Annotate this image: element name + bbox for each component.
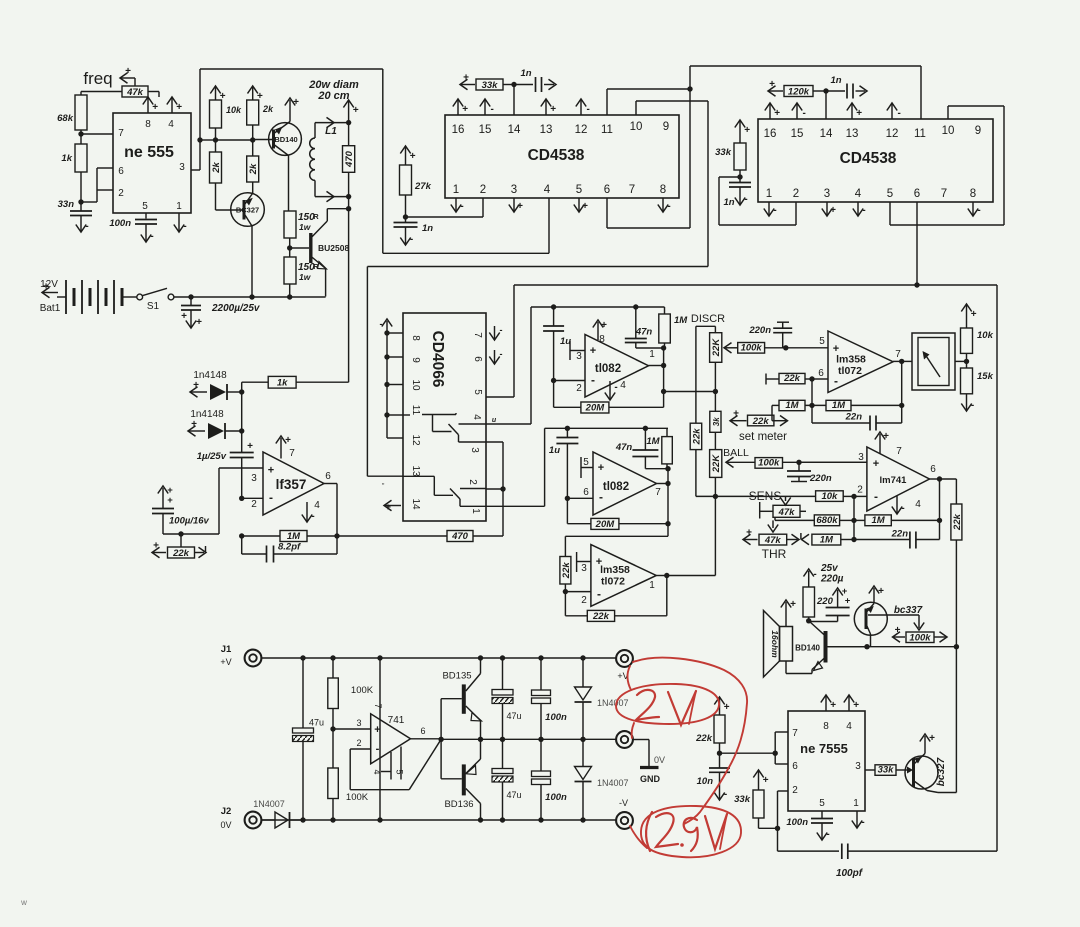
svg-text:6: 6	[914, 188, 920, 200]
svg-text:13: 13	[846, 128, 859, 140]
svg-text:10n: 10n	[697, 776, 714, 787]
node 47n-1M a	[636, 345, 667, 350]
switch U5 a	[403, 413, 486, 442]
svg-text:-: -	[971, 400, 974, 411]
svg-text:5: 5	[887, 188, 893, 200]
connector J2	[220, 806, 261, 830]
svg-text:20 cm: 20 cm	[317, 90, 349, 102]
label SENS	[749, 489, 782, 503]
svg-text:-: -	[724, 789, 727, 800]
svg-text:7: 7	[373, 703, 383, 708]
svg-text:+: +	[744, 125, 750, 136]
power arrow bc327 2	[920, 733, 935, 754]
svg-text:-: -	[826, 829, 829, 840]
svg-text:GND: GND	[640, 774, 661, 784]
svg-text:4: 4	[471, 414, 482, 420]
svg-text:10k: 10k	[977, 330, 994, 341]
svg-text:220n: 220n	[748, 325, 771, 336]
svg-text:2200µ/25v: 2200µ/25v	[211, 303, 261, 314]
resistor 22k parallel	[690, 326, 715, 496]
svg-text:16ohm: 16ohm	[770, 630, 780, 658]
svg-text:8: 8	[410, 335, 421, 341]
svg-text:100k: 100k	[758, 458, 780, 469]
svg-text:+: +	[878, 586, 884, 597]
svg-text:1w: 1w	[299, 222, 312, 232]
resistor 33k (U4)	[715, 143, 746, 170]
svg-text:8.2pf: 8.2pf	[278, 542, 301, 553]
svg-text:6: 6	[325, 471, 331, 482]
wire	[714, 432, 716, 449]
svg-text:+: +	[830, 700, 836, 711]
svg-text:47k: 47k	[778, 507, 796, 518]
svg-text:+: +	[353, 105, 359, 116]
svg-text:S1: S1	[147, 301, 160, 312]
svg-text:w: w	[20, 898, 27, 907]
resistor 680k	[775, 515, 857, 526]
power arrow lf357 pin7	[276, 435, 295, 459]
svg-text:6: 6	[930, 464, 936, 475]
svg-text:+: +	[153, 541, 159, 552]
pin3 marker lm358c	[577, 552, 591, 574]
svg-text:22n: 22n	[891, 529, 909, 540]
svg-text:1M: 1M	[820, 534, 834, 545]
power arrow 22k bias	[714, 697, 729, 715]
svg-text:13: 13	[540, 124, 553, 136]
svg-text:+: +	[176, 102, 182, 113]
power arrow BD140 emitter	[285, 97, 299, 122]
svg-text:2: 2	[118, 188, 124, 199]
resistor 150R 1w lower	[284, 257, 319, 284]
ground arrow U3 pin1	[451, 198, 464, 212]
svg-text:4: 4	[314, 500, 320, 511]
capacitor 47u b	[492, 658, 522, 739]
pin5 marker tl082b	[581, 457, 593, 478]
svg-text:1M: 1M	[674, 315, 688, 326]
red link to 0V	[627, 666, 634, 738]
svg-text:-: -	[861, 817, 864, 828]
wire U4 pin2	[719, 177, 796, 225]
ground arrow U6A pin4	[605, 380, 626, 400]
svg-text:10: 10	[942, 125, 955, 137]
svg-text:J2: J2	[221, 806, 232, 817]
diode 1N4007 J2	[253, 799, 303, 828]
power arrow coil	[343, 100, 358, 123]
capacitor 33n	[58, 199, 92, 216]
capacitor 100n (U10 pin5)	[786, 811, 833, 828]
op-amp 741 U11	[356, 703, 410, 763]
svg-text:16: 16	[452, 124, 465, 136]
svg-text:+: +	[873, 458, 879, 470]
label freq	[83, 69, 112, 88]
power arrow pin4	[167, 97, 182, 113]
wire U5 pin4	[459, 307, 532, 424]
resistor 1M a	[659, 307, 688, 348]
svg-text:5: 5	[819, 336, 825, 347]
svg-text:2: 2	[792, 785, 798, 796]
svg-text:2: 2	[480, 184, 486, 196]
resistor 10k	[210, 100, 243, 128]
svg-text:6: 6	[420, 726, 425, 736]
svg-text:-: -	[500, 325, 503, 335]
resistor 33k (U10 out)	[865, 765, 913, 776]
op-amp lf357 U2	[251, 452, 324, 515]
svg-text:+: +	[724, 702, 730, 713]
capacitor 100n b	[532, 739, 568, 820]
svg-text:4: 4	[372, 769, 382, 774]
red 2 (12V)	[636, 690, 659, 720]
node U6A out tap	[661, 389, 716, 394]
resistor 20M b	[567, 498, 670, 530]
potentiometer 100k (audio)	[893, 625, 948, 644]
svg-text:100n: 100n	[786, 817, 808, 828]
svg-text:+: +	[517, 201, 523, 212]
svg-text:+: +	[763, 775, 769, 786]
svg-text:+: +	[590, 345, 596, 357]
svg-text:100n: 100n	[545, 792, 567, 803]
capacitor 1n (27k)	[394, 223, 434, 235]
meter M1	[912, 333, 955, 390]
capacitor 100pf	[836, 844, 997, 880]
svg-text:+: +	[601, 320, 607, 331]
svg-text:47u: 47u	[309, 718, 324, 728]
svg-text:1: 1	[176, 201, 182, 212]
svg-text:100k: 100k	[909, 633, 931, 644]
wire U3 pin6	[607, 198, 690, 228]
resistor 22k in (lm358c)	[560, 557, 572, 585]
svg-text:J1: J1	[221, 644, 232, 655]
svg-text:THR: THR	[762, 547, 787, 561]
ground arrow U4 pin3	[822, 202, 836, 216]
svg-text:11: 11	[914, 128, 926, 140]
diode 1n4148 D1	[210, 384, 242, 400]
capacitor 1n (U4)	[826, 75, 867, 99]
svg-text:2: 2	[581, 595, 587, 606]
svg-text:-: -	[614, 382, 617, 393]
wire U9 pin3	[799, 461, 867, 463]
svg-text:3: 3	[858, 452, 864, 463]
node D2	[239, 392, 244, 434]
svg-text:-: -	[977, 205, 980, 216]
ground arrow (33n)	[76, 216, 89, 232]
svg-text:-: -	[599, 490, 603, 504]
label Bat1	[40, 303, 61, 314]
svg-text:5: 5	[395, 769, 405, 774]
ground arrow U3 pin5	[574, 198, 588, 212]
wire top rail	[262, 655, 616, 660]
wire U4 pin10 loop	[890, 106, 1004, 225]
svg-text:16: 16	[764, 128, 777, 140]
svg-text:22n: 22n	[845, 412, 863, 423]
ground arrow U4 pin1	[764, 202, 777, 216]
svg-text:1w: 1w	[299, 272, 312, 282]
svg-text:-: -	[491, 104, 494, 115]
svg-text:1n: 1n	[723, 197, 734, 208]
svg-text:12: 12	[886, 128, 899, 140]
svg-text:3: 3	[824, 188, 830, 200]
svg-text:5: 5	[576, 184, 582, 196]
svg-text:8: 8	[823, 721, 829, 732]
svg-text:+: +	[856, 108, 862, 119]
wire to CD4066 pins	[486, 442, 506, 536]
svg-text:2: 2	[793, 188, 799, 200]
ground arrow U3 pin3	[509, 198, 523, 212]
svg-text:+: +	[929, 733, 935, 744]
svg-text:+: +	[463, 73, 469, 84]
resistor 100k (discr)	[738, 343, 786, 354]
ic CD4538 U4	[758, 119, 993, 202]
svg-text:-: -	[380, 319, 383, 329]
svg-text:1: 1	[766, 188, 772, 200]
wire	[148, 92, 159, 98]
ground arrow 10n	[714, 773, 727, 800]
svg-text:-: -	[813, 569, 816, 580]
power arrow U3 pin12	[576, 99, 590, 115]
svg-text:7: 7	[472, 332, 483, 338]
node 68k-1k	[78, 130, 113, 144]
potentiometer 22k set meter	[730, 405, 788, 426]
svg-text:set meter: set meter	[739, 431, 787, 443]
connector 0V out	[616, 731, 649, 766]
node 33k-1n (U4)	[737, 170, 742, 182]
node meter divider	[955, 359, 969, 364]
svg-text:741: 741	[388, 715, 405, 726]
svg-text:15: 15	[479, 124, 492, 136]
capacitor 220n b	[787, 460, 832, 484]
op ne555 U1	[113, 113, 191, 213]
svg-text:-: -	[311, 511, 314, 522]
resistor 22k out	[951, 479, 963, 647]
power arrow 10k meter	[961, 304, 976, 328]
capacitor 1u a	[543, 307, 571, 381]
svg-text:20M: 20M	[595, 519, 616, 530]
svg-text:7: 7	[629, 184, 635, 196]
capacitor 47u c	[492, 739, 522, 820]
svg-text:15: 15	[791, 128, 804, 140]
resistor 470 (link)	[337, 531, 503, 542]
red 9 (2.9V)	[684, 818, 698, 851]
svg-text:10: 10	[410, 379, 421, 391]
svg-text:-: -	[376, 743, 380, 755]
wire long to CD4066	[367, 267, 708, 477]
svg-text:-: -	[150, 231, 153, 242]
svg-text:1k: 1k	[277, 378, 288, 389]
red ellipse 12V	[616, 684, 719, 724]
power arrow 33k low	[753, 770, 768, 790]
power arrow U3 pin16	[453, 99, 468, 115]
svg-text:1M: 1M	[785, 400, 799, 411]
wire bottom supply rail	[262, 817, 616, 822]
arrow diode a	[190, 380, 207, 397]
ground arrow (27k 1n)	[400, 228, 413, 246]
svg-text:BU2508: BU2508	[318, 243, 349, 253]
svg-text:1: 1	[453, 184, 459, 196]
svg-text:tl082: tl082	[603, 481, 629, 493]
svg-text:22k: 22k	[783, 373, 801, 384]
ic CD4538 U3	[445, 115, 679, 198]
svg-text:33k: 33k	[715, 147, 732, 158]
power arrow U4 pin12	[887, 103, 901, 119]
svg-text:220µ: 220µ	[820, 574, 844, 585]
svg-text:+: +	[845, 596, 851, 607]
resistor 22K BALL	[710, 447, 749, 477]
pin3 marker tl082a	[570, 341, 585, 360]
resistor 27k	[400, 165, 432, 195]
svg-text:3: 3	[855, 761, 861, 772]
svg-text:BC327: BC327	[236, 206, 259, 215]
wire BD140 collector	[288, 156, 290, 212]
svg-text:+: +	[43, 282, 49, 293]
svg-text:CD4538: CD4538	[528, 147, 585, 164]
transistor BD140 Q1	[269, 122, 302, 156]
svg-text:4: 4	[855, 188, 862, 200]
svg-text:22k: 22k	[592, 611, 610, 622]
svg-text:7: 7	[655, 487, 661, 498]
wire	[216, 183, 245, 210]
svg-text:6: 6	[583, 487, 589, 498]
transistor BD135 Q7	[442, 658, 481, 739]
svg-text:27k: 27k	[414, 181, 432, 192]
resistor 1M b	[646, 428, 672, 468]
speaker 16ohm	[764, 611, 793, 678]
wire to lm358c	[565, 524, 668, 557]
svg-text:+: +	[971, 309, 977, 320]
wire U4 pin6	[914, 202, 919, 288]
red link to -V	[630, 826, 647, 848]
power arrow 33k (U4)	[735, 120, 750, 143]
svg-text:68k: 68k	[57, 113, 74, 124]
svg-text:20M: 20M	[585, 402, 606, 413]
svg-text:22k: 22k	[691, 428, 702, 446]
power arrow 2k b	[248, 86, 263, 102]
svg-text:-: -	[667, 201, 670, 212]
svg-text:47n: 47n	[615, 442, 633, 453]
node lm358c pin2	[563, 584, 591, 594]
power arrow U3 pin15	[480, 99, 494, 115]
svg-text:1N4007: 1N4007	[597, 778, 629, 788]
svg-text:14: 14	[508, 124, 521, 136]
svg-text:680k: 680k	[816, 515, 838, 526]
svg-text:2: 2	[576, 383, 582, 394]
diode 1N4007 b	[575, 739, 629, 820]
svg-text:+: +	[293, 97, 299, 108]
svg-text:lm358: lm358	[600, 564, 630, 576]
svg-text:1N4007: 1N4007	[597, 698, 629, 708]
pin6 marker lm358b	[766, 374, 779, 385]
resistor 2k c	[247, 156, 259, 182]
power arrow 10k	[210, 86, 225, 102]
transistor BD140 Q5	[786, 622, 867, 674]
wire U8 out	[893, 349, 912, 405]
svg-text:7: 7	[792, 728, 798, 739]
label 25v 220u	[820, 563, 844, 585]
svg-text:14: 14	[410, 498, 421, 510]
svg-text:1: 1	[470, 508, 481, 514]
power arrow U10 pin4	[844, 695, 859, 711]
svg-text:+: +	[285, 435, 291, 446]
wire U5 left bus	[380, 319, 404, 438]
capacitor 22n b	[854, 520, 940, 548]
node 27k-1n	[403, 195, 408, 222]
node 47n-1M b	[645, 466, 670, 471]
op-amp lm741 U9	[857, 447, 929, 511]
svg-text:+: +	[774, 108, 780, 119]
label 12V	[40, 279, 58, 290]
wire BALL chain	[713, 477, 718, 575]
wire L1 bottom	[315, 191, 351, 201]
resistor 2k a	[210, 152, 222, 183]
wire U3 pin10	[636, 101, 708, 267]
svg-text:+: +	[769, 79, 775, 90]
resistor 33k (U10 pin2)	[734, 790, 777, 828]
pins 4-5 stubs 741	[372, 747, 405, 780]
potentiometer 22k (offset)	[152, 541, 206, 560]
wire	[80, 172, 82, 203]
svg-text:8: 8	[145, 119, 151, 130]
svg-text:-: -	[744, 194, 747, 205]
svg-text:+: +	[596, 556, 602, 568]
svg-text:25v: 25v	[820, 563, 839, 574]
capacitor 100n a	[532, 658, 568, 739]
ground arrow U4 pin4	[853, 202, 866, 216]
svg-text:1N4007: 1N4007	[253, 799, 285, 809]
svg-text:1: 1	[649, 349, 655, 360]
svg-text:8: 8	[599, 334, 605, 345]
svg-text:3: 3	[251, 473, 257, 484]
svg-text:3k: 3k	[712, 417, 721, 426]
svg-text:5: 5	[583, 457, 589, 468]
resistor 15k (meter)	[961, 361, 994, 393]
inductor L1	[310, 123, 338, 197]
potentiometer freq 47k	[120, 66, 148, 98]
resistor 20M a	[554, 381, 664, 414]
arrow U5 pin14	[384, 500, 401, 513]
ground arrow U10 100n	[817, 824, 830, 841]
potentiometer 47k THR	[743, 528, 799, 546]
svg-text:+: +	[191, 419, 197, 430]
capacitor 47u a	[293, 658, 325, 820]
power arrow U4 pin16	[765, 103, 780, 119]
svg-text:9: 9	[410, 357, 421, 363]
red paren (2.9V)	[646, 812, 652, 851]
mark u	[492, 417, 497, 424]
power arrow U9 pin7	[875, 431, 902, 457]
svg-text:8: 8	[970, 188, 976, 200]
wire 741 power	[379, 658, 381, 820]
resistor 100K a	[328, 658, 374, 768]
wire SENS row	[716, 496, 791, 505]
ground arrow U3 pin8	[658, 198, 671, 212]
wire	[81, 92, 122, 96]
svg-text:-: -	[587, 104, 590, 115]
svg-text:15k: 15k	[977, 371, 994, 382]
svg-text:22k: 22k	[952, 513, 963, 531]
svg-text:6: 6	[792, 761, 798, 772]
svg-text:+: +	[746, 528, 752, 539]
svg-text:-: -	[183, 221, 186, 232]
svg-text:33n: 33n	[58, 199, 75, 210]
resistor 1k (link)	[242, 376, 349, 392]
svg-text:100pf: 100pf	[836, 868, 864, 879]
power arrow 27k	[400, 146, 415, 165]
svg-text:2: 2	[467, 479, 478, 485]
svg-text:8: 8	[660, 184, 666, 196]
node lf357 pin2	[239, 496, 263, 501]
svg-text:12: 12	[410, 434, 421, 446]
svg-text:7: 7	[289, 448, 295, 459]
svg-text:33k: 33k	[734, 794, 751, 805]
resistor 1M feedback lf357	[239, 531, 337, 542]
svg-text:4: 4	[846, 721, 852, 732]
